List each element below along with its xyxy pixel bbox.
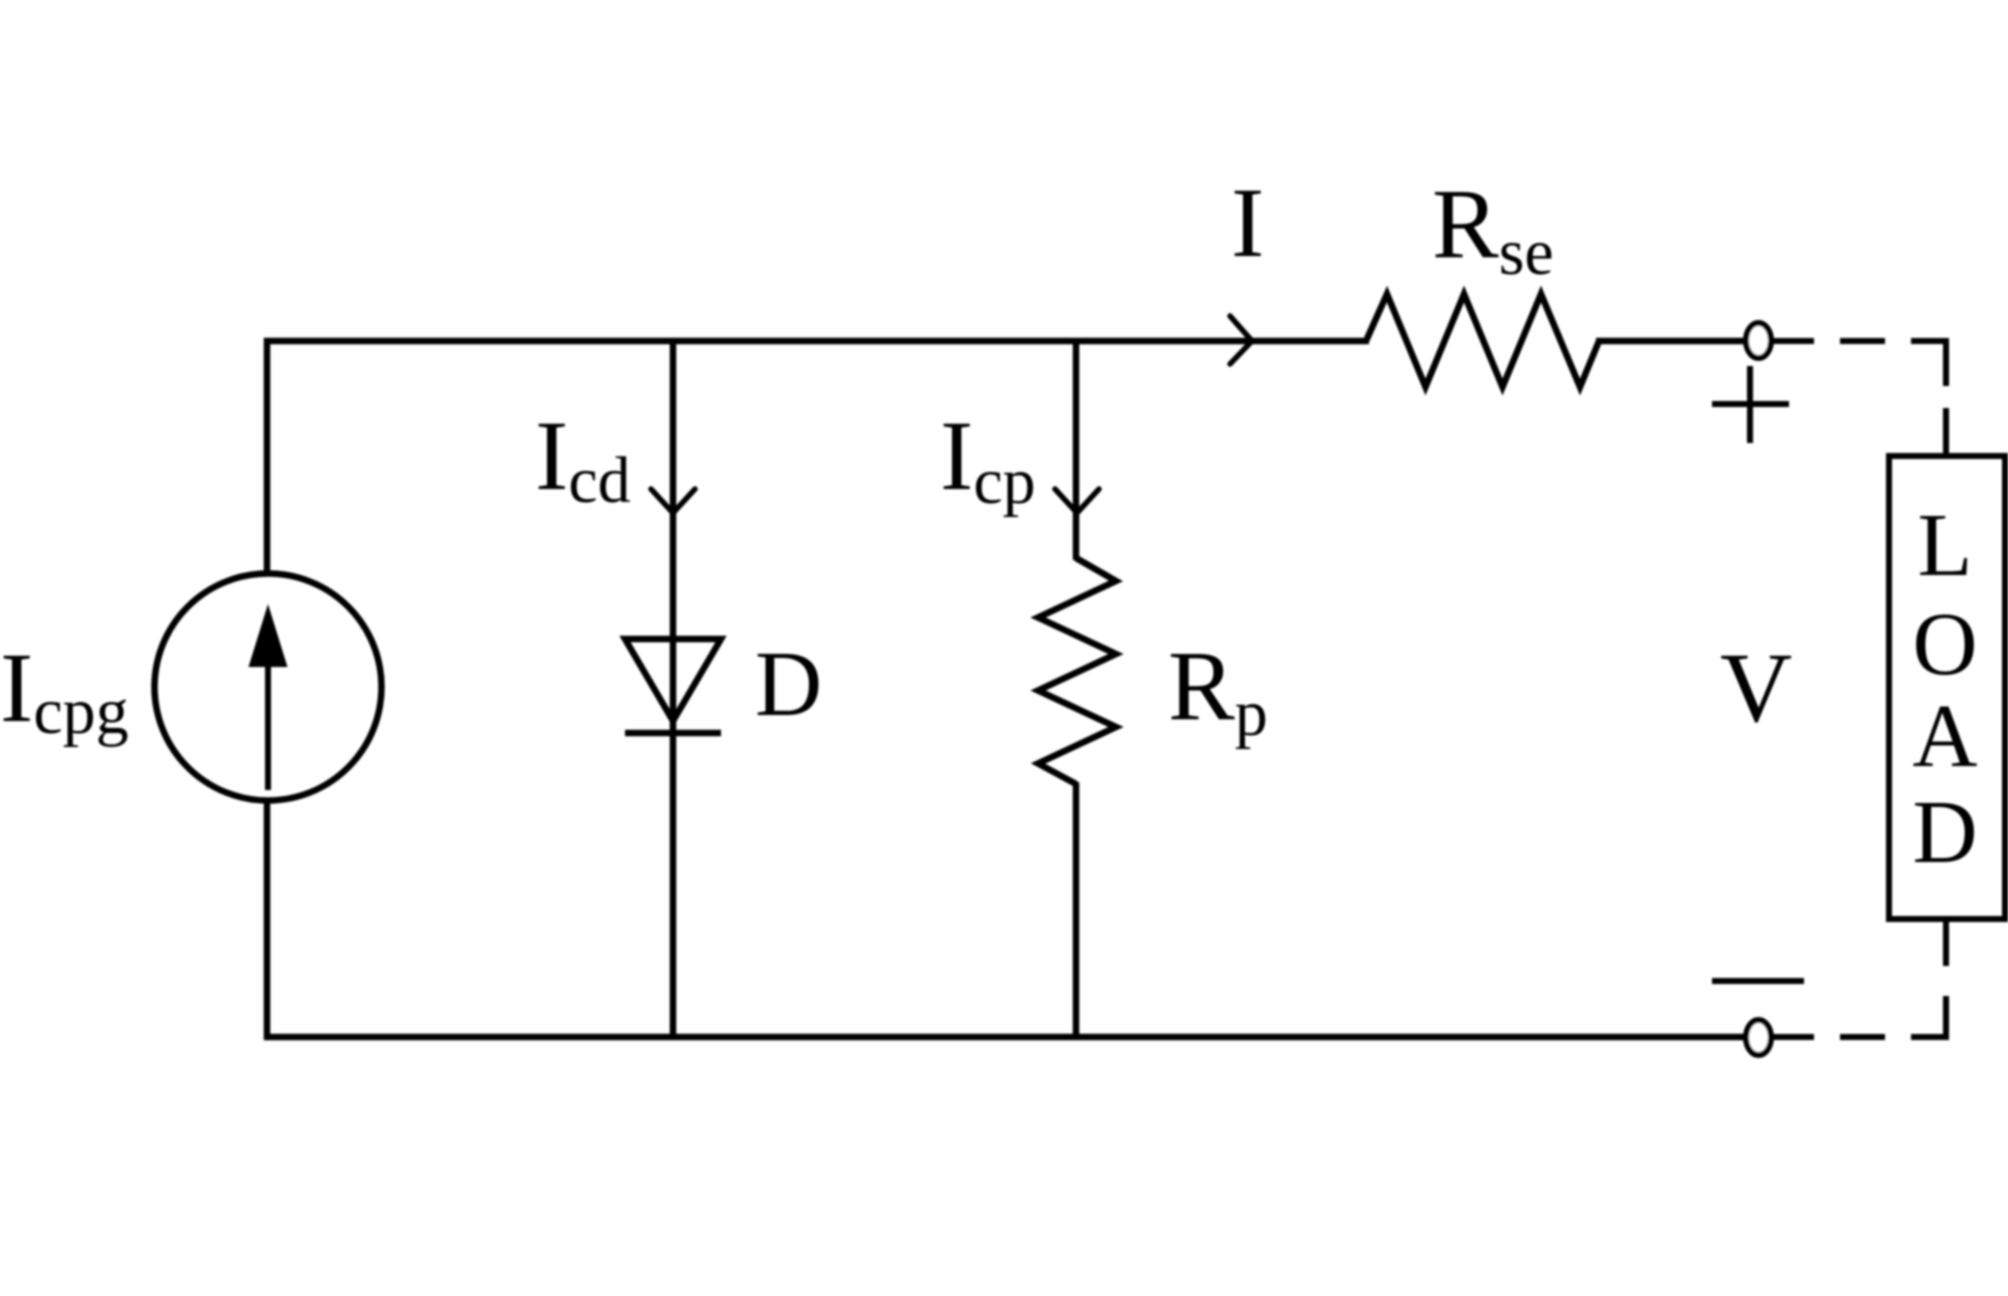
- svg-text:O: O: [1913, 595, 1978, 694]
- plus sign horizontal: [1712, 401, 1789, 407]
- svg-text:L: L: [1918, 496, 1973, 595]
- svg-text:D: D: [1913, 783, 1978, 882]
- plus sign vertical: [1747, 366, 1753, 443]
- terminal - circle: [1746, 1020, 1771, 1055]
- wire top: Rse to + terminal: [1596, 338, 1745, 345]
- svg-text:V: V: [1720, 632, 1792, 743]
- svg-text:D: D: [755, 633, 822, 736]
- wire bottom: Rp node to - terminal: [1076, 1034, 1745, 1041]
- dashed wire bottom: dash to load: [1943, 922, 1949, 966]
- dashed wire bottom: corner dash: [1911, 996, 1946, 1037]
- resistor Rse zigzag: [1366, 294, 1599, 387]
- LOAD box: [1889, 456, 2005, 919]
- arrow I on top wire: [1230, 316, 1252, 364]
- svg-text:A: A: [1913, 687, 1978, 786]
- wire diode branch: [670, 338, 677, 733]
- diode D cathode bar: [625, 730, 721, 737]
- current source arrow head: [249, 604, 288, 667]
- dashed wire top: solid nub: [1772, 338, 1814, 344]
- dashed wire bottom: dash: [1840, 1034, 1885, 1040]
- svg-text:I: I: [1231, 167, 1264, 278]
- dashed wire top: corner dash: [1911, 341, 1946, 386]
- wire left vertical upper: [264, 338, 271, 576]
- wire left vertical lower: [264, 798, 271, 1040]
- current source Icpg circle: [155, 574, 382, 801]
- wire top: diode node to Rp node: [673, 338, 1076, 345]
- dashed wire bottom: solid nub: [1772, 1034, 1814, 1040]
- terminal + circle: [1746, 323, 1771, 358]
- arrow Icd: [651, 489, 695, 513]
- wire bottom: source to diode node: [264, 1034, 673, 1041]
- arrow Icp: [1055, 489, 1099, 513]
- diode D triangle: [625, 639, 721, 721]
- node: wire top Rp node to Rse: [1076, 338, 1369, 345]
- dashed wire top: dash to load: [1943, 408, 1949, 453]
- wire Rp branch lower: [1073, 782, 1080, 1040]
- dashed wire top: dash: [1840, 338, 1885, 344]
- minus sign: [1712, 978, 1804, 984]
- wire bottom: diode node to Rp node: [673, 1034, 1076, 1041]
- resistor Rp zigzag: [1038, 558, 1116, 784]
- current source arrow shaft: [265, 655, 271, 790]
- wire top: source to diode node: [264, 338, 673, 345]
- wire Rp branch upper: [1073, 338, 1080, 560]
